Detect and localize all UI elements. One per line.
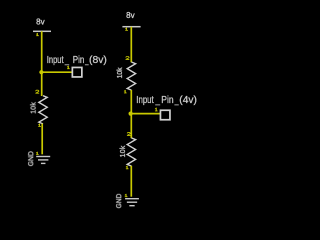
- svg-text:8v: 8v: [126, 11, 134, 20]
- svg-text:10k: 10k: [117, 67, 124, 79]
- svg-text:10k: 10k: [120, 145, 127, 157]
- svg-text:GND: GND: [26, 151, 35, 166]
- svg-text:GND: GND: [114, 194, 123, 209]
- svg-text:InputPin(8v): InputPin(8v): [47, 55, 107, 66]
- svg-text:10k: 10k: [31, 102, 38, 114]
- svg-text:8v: 8v: [36, 17, 44, 26]
- svg-text:InputPin(4v): InputPin(4v): [136, 95, 197, 106]
